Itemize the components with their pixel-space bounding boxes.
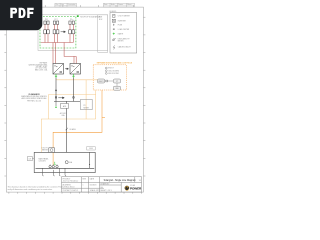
- svg-text:verify all dimensions and cond: verify all dimensions and conditions pri…: [8, 188, 54, 191]
- svg-text:LDS: LDS: [29, 158, 32, 160]
- svg-text:SYSTEM 7.2 kW DC: SYSTEM 7.2 kW DC: [63, 190, 79, 192]
- svg-text:CT: CT: [116, 81, 118, 83]
- svg-text:DRAWN BY: DRAWN BY: [100, 183, 110, 186]
- svg-text:UTILITY METER: UTILITY METER: [118, 15, 131, 17]
- svg-text:PER NEC 110.26: PER NEC 110.26: [27, 100, 41, 102]
- svg-text:POWER: POWER: [130, 186, 142, 190]
- svg-text:05/18/23: 05/18/23: [90, 185, 97, 187]
- svg-text:FUSE: FUSE: [118, 24, 122, 26]
- svg-text:PV: PV: [84, 105, 86, 107]
- svg-text:ENVOY: ENVOY: [99, 81, 104, 83]
- svg-text:METER: METER: [118, 40, 124, 42]
- svg-text:METER: METER: [42, 150, 49, 152]
- svg-text:ENVOY: ENVOY: [108, 68, 115, 70]
- svg-text:WIFI ROUTER: WIFI ROUTER: [108, 73, 119, 75]
- svg-text:CELL MODEM: CELL MODEM: [108, 70, 119, 72]
- svg-text:1: 1: [83, 185, 84, 187]
- svg-text:Solargraf - Single Line Diagra: Solargraf - Single Line Diagram: [104, 179, 136, 182]
- svg-text:METER: METER: [84, 107, 90, 109]
- svg-text:IQ8M MICROINVERTERS: IQ8M MICROINVERTERS: [28, 64, 47, 66]
- svg-text:Drawn: Drawn: [118, 4, 123, 6]
- svg-text:Scale: Scale: [111, 4, 115, 6]
- svg-text:ENPHASE MONITORING AND CONTROL: ENPHASE MONITORING AND CONTROLS: [97, 62, 133, 65]
- svg-text:SCALE: NTS: SCALE: NTS: [90, 189, 101, 192]
- svg-text:120/240V: 120/240V: [39, 161, 47, 163]
- svg-text:SHEET 1 OF 3: SHEET 1 OF 3: [100, 190, 111, 192]
- svg-text:123 Main Street: 123 Main Street: [63, 186, 75, 189]
- svg-text:INVERTER: INVERTER: [118, 20, 127, 22]
- svg-text:Rev: Rev: [56, 4, 59, 6]
- svg-text:1/3: 1/3: [139, 180, 141, 182]
- svg-text:Jane Doe Residence: Jane Doe Residence: [63, 181, 79, 183]
